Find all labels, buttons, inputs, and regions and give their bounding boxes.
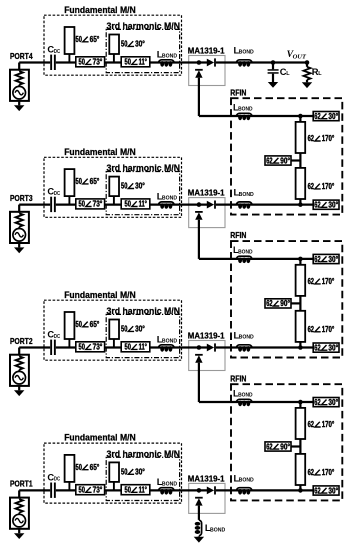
svg-text:BOND: BOND	[238, 393, 253, 399]
svg-text:50: 50	[121, 182, 128, 191]
svg-text:65°: 65°	[90, 177, 100, 186]
svg-text:11°: 11°	[139, 343, 147, 352]
svg-text:62: 62	[308, 134, 315, 143]
svg-text:MA1319-1: MA1319-1	[188, 473, 225, 483]
svg-text:PORT3: PORT3	[10, 193, 33, 203]
svg-text:62: 62	[308, 325, 315, 334]
svg-text:50: 50	[125, 486, 132, 495]
svg-text:BOND: BOND	[162, 481, 177, 487]
svg-text:PORT1: PORT1	[10, 479, 33, 489]
svg-text:DC: DC	[54, 49, 60, 55]
svg-text:170°: 170°	[322, 134, 335, 143]
svg-text:RFIN: RFIN	[230, 230, 246, 240]
svg-text:11°: 11°	[139, 486, 147, 495]
svg-text:62: 62	[314, 112, 321, 121]
svg-text:62: 62	[266, 299, 273, 308]
svg-text:50: 50	[121, 468, 128, 477]
svg-text:BOND: BOND	[239, 50, 254, 56]
svg-text:65°: 65°	[90, 463, 100, 472]
svg-text:MA1319-1: MA1319-1	[188, 330, 225, 340]
svg-text:170°: 170°	[322, 468, 335, 477]
svg-text:170°: 170°	[322, 325, 335, 334]
svg-text:30°: 30°	[328, 112, 338, 121]
svg-text:90°: 90°	[280, 299, 290, 308]
svg-text:62: 62	[308, 277, 315, 286]
svg-text:62: 62	[308, 468, 315, 477]
svg-text:OUT: OUT	[293, 55, 307, 61]
svg-text:62: 62	[314, 398, 321, 407]
svg-text:62: 62	[308, 420, 315, 429]
svg-text:11°: 11°	[139, 58, 147, 67]
svg-text:11°: 11°	[139, 200, 147, 209]
svg-text:MA1319-1: MA1319-1	[188, 188, 225, 198]
svg-text:RFIN: RFIN	[230, 87, 246, 97]
svg-text:50: 50	[79, 343, 86, 352]
svg-text:62: 62	[266, 156, 273, 165]
svg-text:62: 62	[314, 343, 321, 352]
svg-text:170°: 170°	[322, 277, 335, 286]
svg-text:50: 50	[121, 325, 128, 334]
svg-text:30°: 30°	[135, 468, 145, 477]
svg-text:62: 62	[314, 201, 321, 210]
svg-text:30°: 30°	[135, 40, 145, 49]
svg-text:50: 50	[79, 58, 86, 67]
svg-text:BOND: BOND	[239, 335, 254, 341]
svg-text:50: 50	[76, 463, 83, 472]
svg-text:73°: 73°	[93, 486, 103, 495]
svg-text:50: 50	[125, 58, 132, 67]
svg-text:Fundamental M/N: Fundamental M/N	[64, 5, 136, 15]
svg-text:30°: 30°	[135, 325, 145, 334]
svg-text:PORT2: PORT2	[10, 336, 33, 346]
svg-text:DC: DC	[54, 191, 60, 197]
svg-text:170°: 170°	[322, 420, 335, 429]
svg-text:BOND: BOND	[238, 249, 253, 255]
svg-text:BOND: BOND	[162, 339, 177, 345]
svg-text:30°: 30°	[328, 486, 338, 495]
svg-text:50: 50	[125, 200, 132, 209]
svg-text:65°: 65°	[90, 35, 100, 44]
svg-text:50: 50	[79, 486, 86, 495]
svg-text:30°: 30°	[135, 182, 145, 191]
svg-text:DC: DC	[54, 477, 60, 483]
svg-text:62: 62	[308, 182, 315, 191]
svg-text:62: 62	[266, 442, 273, 451]
svg-text:30°: 30°	[328, 343, 338, 352]
svg-text:73°: 73°	[93, 343, 103, 352]
svg-text:30°: 30°	[328, 201, 338, 210]
svg-text:50: 50	[76, 320, 83, 329]
svg-text:BOND: BOND	[239, 478, 254, 484]
svg-text:90°: 90°	[280, 156, 290, 165]
svg-text:62: 62	[314, 255, 321, 264]
svg-text:RFIN: RFIN	[230, 373, 246, 383]
svg-text:50: 50	[125, 343, 132, 352]
svg-text:50: 50	[79, 200, 86, 209]
svg-text:73°: 73°	[93, 200, 103, 209]
svg-text:Fundamental M/N: Fundamental M/N	[64, 290, 136, 300]
svg-text:50: 50	[76, 35, 83, 44]
svg-text:65°: 65°	[90, 320, 100, 329]
svg-text:30°: 30°	[328, 255, 338, 264]
svg-text:62: 62	[314, 486, 321, 495]
svg-text:90°: 90°	[280, 442, 290, 451]
svg-text:BOND: BOND	[239, 192, 254, 198]
svg-text:BOND: BOND	[162, 196, 177, 202]
svg-text:50: 50	[121, 40, 128, 49]
svg-text:DC: DC	[54, 334, 60, 340]
svg-text:PORT4: PORT4	[10, 51, 33, 61]
svg-text:50: 50	[76, 177, 83, 186]
svg-text:BOND: BOND	[238, 107, 253, 113]
svg-text:MA1319-1: MA1319-1	[188, 45, 225, 55]
svg-text:Fundamental M/N: Fundamental M/N	[64, 433, 136, 443]
svg-text:170°: 170°	[322, 182, 335, 191]
svg-text:BOND: BOND	[210, 527, 225, 533]
svg-text:73°: 73°	[93, 58, 103, 67]
svg-text:Fundamental M/N: Fundamental M/N	[64, 147, 136, 157]
svg-text:BOND: BOND	[162, 54, 177, 60]
svg-text:30°: 30°	[328, 398, 338, 407]
